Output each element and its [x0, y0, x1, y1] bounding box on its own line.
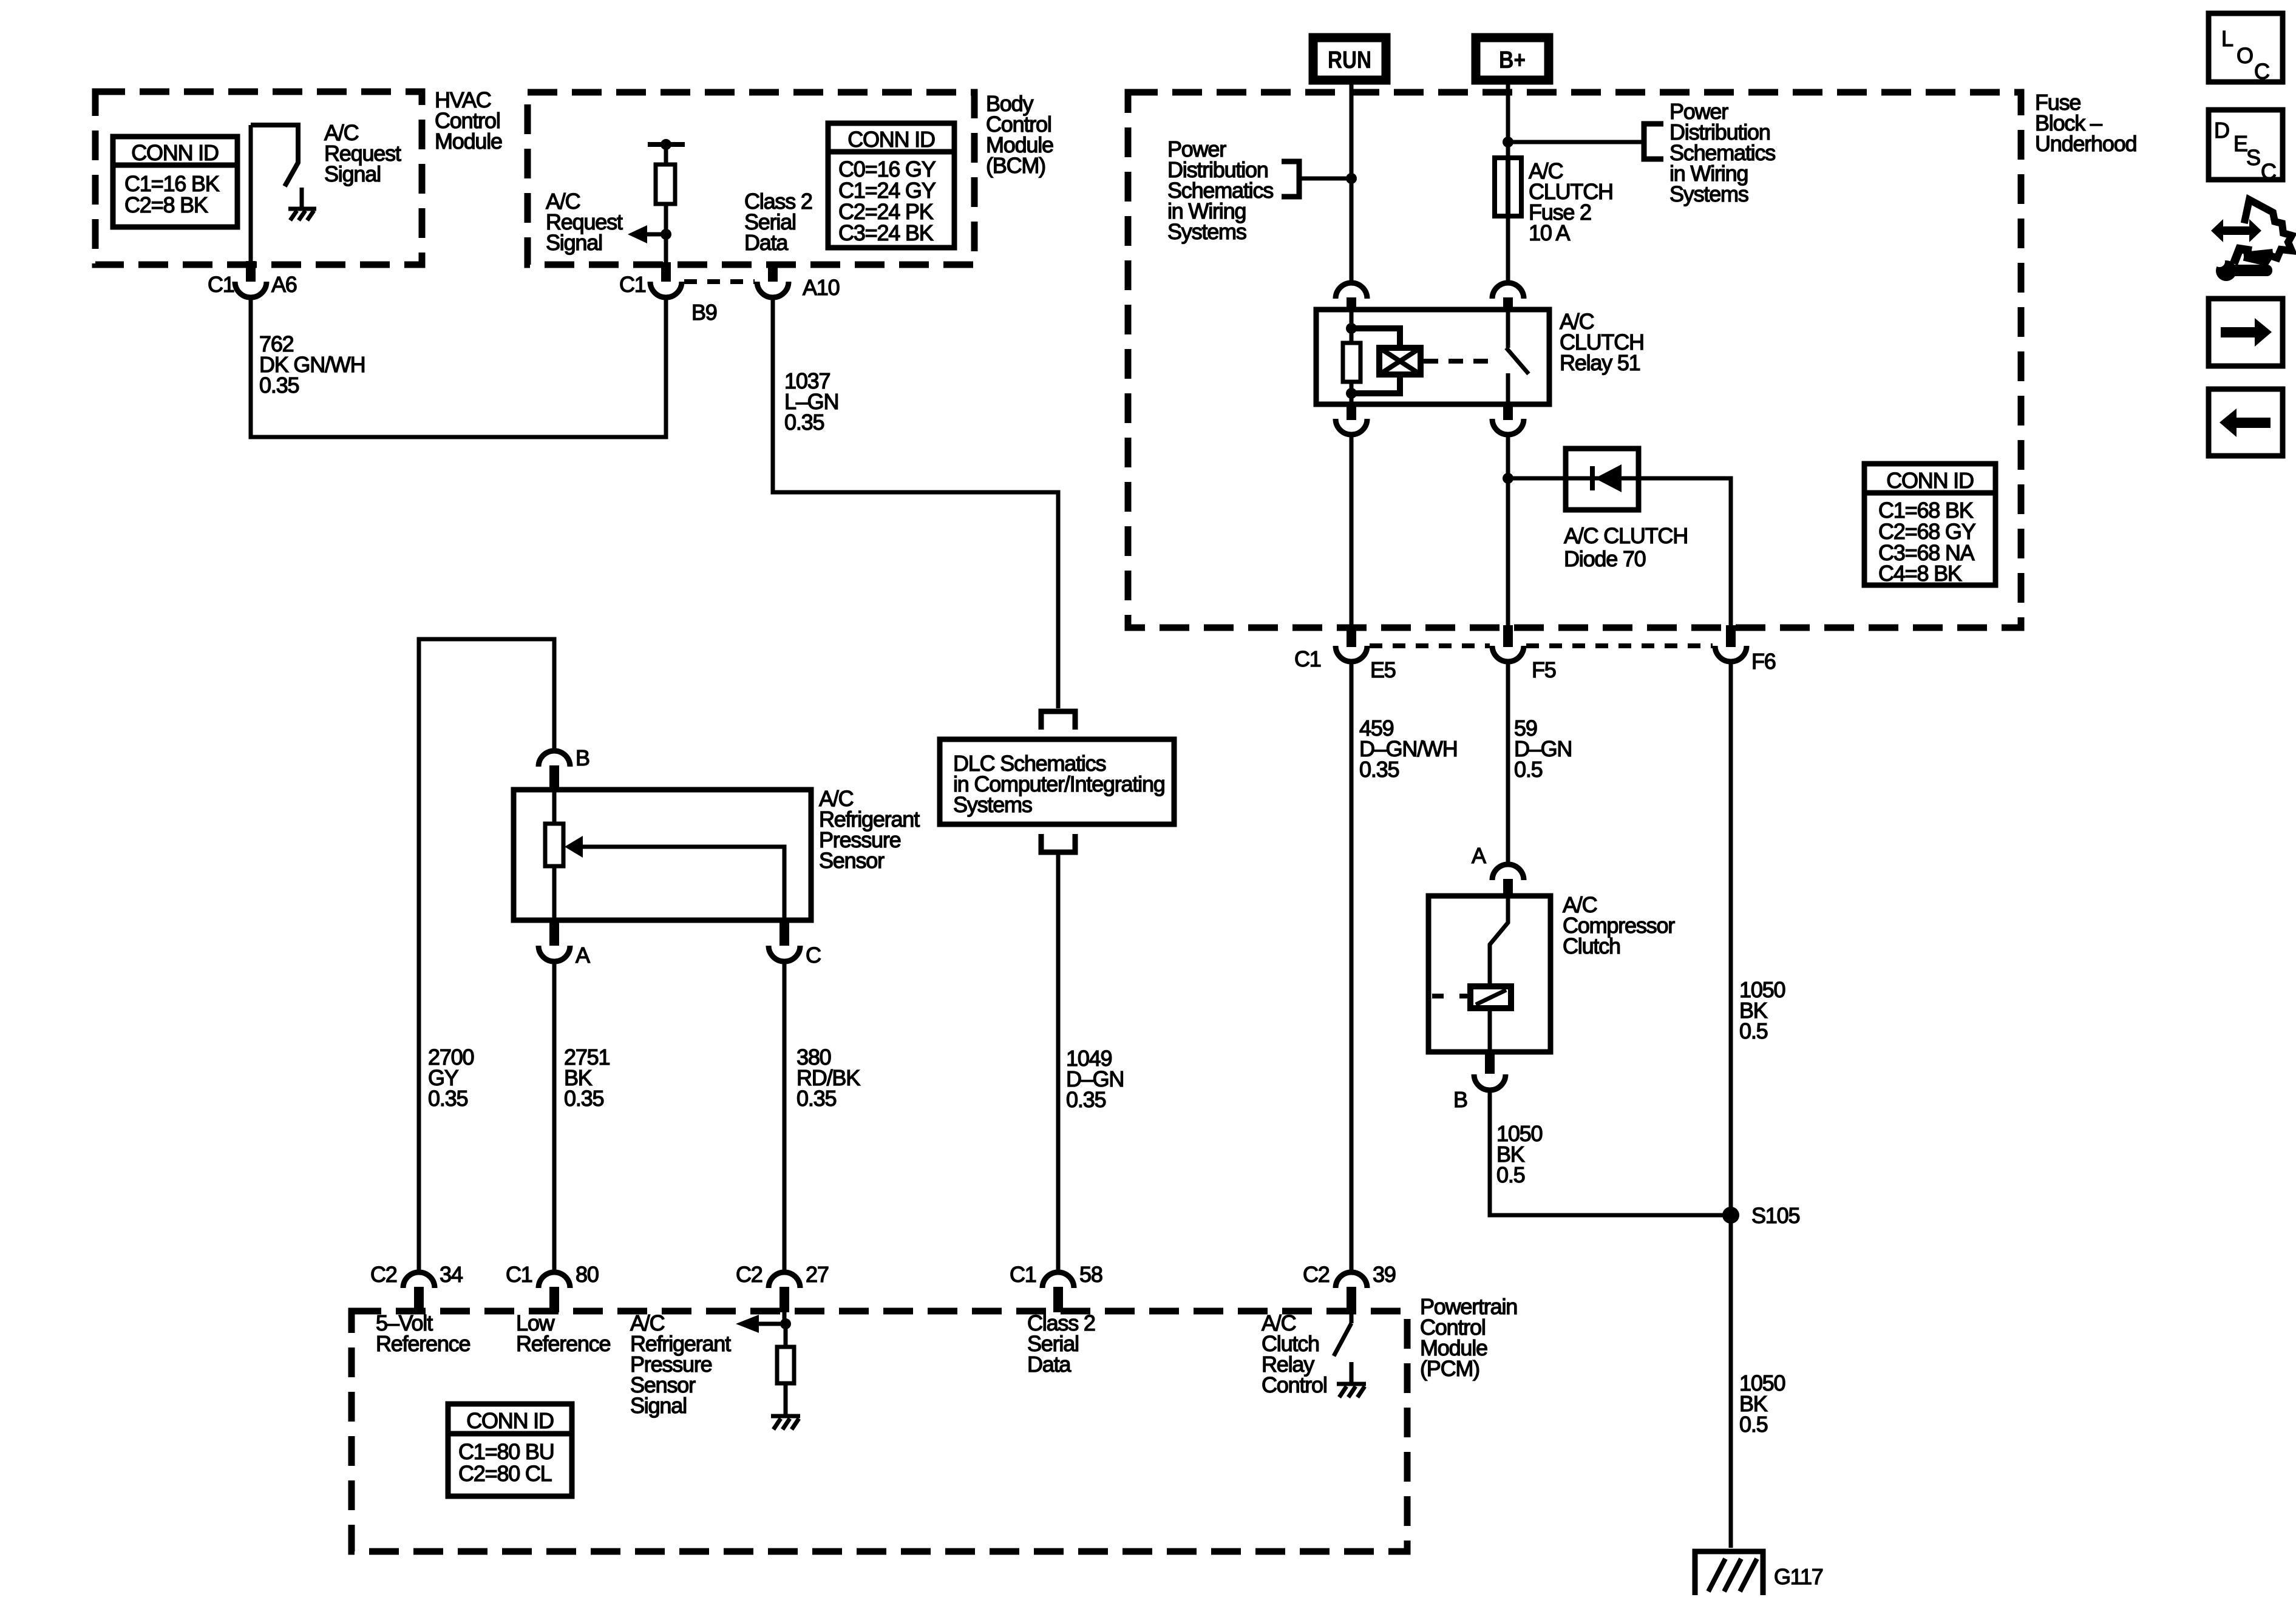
pin stub sensor A [549, 920, 559, 946]
svg-text:34: 34 [440, 1262, 463, 1287]
label wire 2751 BK 0.35 [564, 1045, 610, 1111]
relay coil box-X symbol [1379, 348, 1421, 375]
label wire 1049 D-GN 0.35 [1066, 1046, 1124, 1112]
label Fuse Block - Underhood [2035, 90, 2136, 156]
wire 762 DK GN/WH (A6 to B9) [251, 297, 666, 437]
svg-text:C2=8 BK: C2=8 BK [124, 192, 208, 217]
ground G117 [1695, 1551, 1823, 1595]
pin stub sensor B [549, 765, 559, 791]
pin stub E5 [1347, 625, 1356, 647]
svg-text:C2: C2 [736, 1262, 763, 1287]
power feed box RUN [1313, 38, 1386, 80]
svg-text:C1: C1 [1010, 1262, 1036, 1287]
svg-text:Systems: Systems [953, 792, 1032, 817]
wire branch to power distribution reference (right) [1508, 140, 1644, 144]
svg-text:Diode 70: Diode 70 [1564, 546, 1646, 571]
pin stub F6 [1726, 625, 1736, 647]
svg-text:C: C [2254, 59, 2269, 84]
off-page bracket (right power distribution) [1644, 124, 1663, 159]
off-page bracket (DLC bottom) [1041, 834, 1075, 852]
wire 5-volt reference (sensor B to PCM 34) [419, 639, 554, 1271]
svg-text:(PCM): (PCM) [1420, 1356, 1479, 1381]
arrow A/C Request Signal (BCM) [628, 225, 666, 243]
label wire 380 RD/BK 0.35 [796, 1045, 860, 1111]
resistor (relay coil suppression) [1343, 343, 1360, 382]
pin stub compressor A [1503, 879, 1513, 897]
pin stub PCM 27 [779, 1287, 789, 1312]
label A/C Request Signal (HVAC) [324, 120, 401, 186]
wire 59 D-GN (F5 to compressor A) [1506, 662, 1510, 866]
svg-text:C4=8 BK: C4=8 BK [1878, 561, 1962, 586]
label Class 2 Serial Data (PCM) [1027, 1310, 1095, 1377]
DLC Schematics reference box [940, 739, 1174, 824]
svg-text:0.5: 0.5 [1739, 1019, 1768, 1043]
svg-text:80: 80 [576, 1262, 599, 1287]
connector F5 [1492, 646, 1556, 682]
svg-text:CONN ID: CONN ID [131, 140, 219, 165]
connector C1 E5 [1294, 646, 1396, 682]
svg-text:Data: Data [1027, 1352, 1072, 1377]
svg-text:CONN ID: CONN ID [466, 1408, 554, 1433]
power feed box B+ [1476, 38, 1549, 80]
label A/C Request Signal (BCM) [546, 189, 623, 255]
svg-text:Systems: Systems [1167, 219, 1246, 244]
svg-text:0.5: 0.5 [1739, 1412, 1768, 1437]
pin stub PCM 39 [1347, 1287, 1356, 1312]
connector sensor pin C [769, 943, 821, 968]
node dot relay coil bottom [1346, 388, 1357, 399]
connector C1 80 [506, 1262, 599, 1288]
pin stub B9 [661, 262, 671, 282]
wire branch to power distribution reference (left) [1299, 177, 1351, 181]
connector C2 27 [736, 1262, 829, 1288]
svg-text:B+: B+ [1499, 47, 1526, 73]
svg-text:A/C CLUTCH: A/C CLUTCH [1564, 523, 1688, 548]
svg-text:0.35: 0.35 [564, 1086, 603, 1111]
connector arc compressor pin A [1472, 843, 1524, 880]
wiper arrow (pressure sensor) [565, 836, 784, 920]
connector C1 B9 [619, 272, 717, 325]
wire 1050 BK (compressor B to S105) [1490, 1090, 1731, 1215]
label Power Distribution Schematics in Wiring Systems (right) [1669, 99, 1775, 206]
svg-text:F6: F6 [1751, 649, 1776, 674]
Fuse Block - Underhood box [1128, 92, 2021, 628]
pin stub A6 [246, 261, 256, 282]
wire 2751 BK (sensor A to PCM 80) [552, 961, 557, 1271]
wire 1050 BK (F6 to G117) [1729, 662, 1733, 1548]
svg-text:C1: C1 [619, 272, 646, 297]
pin stub A10 [768, 262, 778, 282]
svg-text:Systems: Systems [1669, 181, 1748, 206]
label wire 1050 BK 0.5 (compressor B) [1496, 1121, 1542, 1187]
label A/C CLUTCH Relay 51 [1560, 309, 1644, 375]
label A/C CLUTCH Fuse 2 10 A [1529, 158, 1613, 245]
svg-text:Signal: Signal [324, 161, 381, 186]
svg-text:Sensor: Sensor [819, 848, 885, 873]
ground (HVAC switch) [288, 188, 316, 220]
label HVAC Control Module [435, 87, 502, 154]
resistor (PCM input pull) [777, 1324, 794, 1414]
svg-text:C: C [2261, 159, 2276, 184]
svg-text:0.35: 0.35 [259, 373, 299, 398]
node junction dot (BCM) [661, 229, 671, 240]
resistor (BCM A/C request pull-up) [656, 144, 675, 265]
connector row dotted line (underhood C1 right) [1526, 643, 1713, 648]
connector F6 [1715, 646, 1776, 674]
wire RUN feed [1350, 84, 1354, 280]
svg-text:C1=80 BU: C1=80 BU [458, 1439, 554, 1464]
connector compressor pin B [1453, 1074, 1506, 1112]
label Body Control Module (BCM) [986, 91, 1053, 178]
svg-text:Module: Module [435, 129, 502, 154]
connector row dotted line (BCM C1) [684, 279, 755, 284]
switch relay control driver (PCM internal) [1334, 1311, 1351, 1356]
connector A10 [757, 275, 840, 300]
svg-text:0.35: 0.35 [784, 410, 824, 435]
splice node S105 [1722, 1203, 1799, 1228]
svg-text:RUN: RUN [1328, 47, 1371, 73]
connector arc (relay pin 1 top) [1336, 283, 1367, 311]
svg-text:C2: C2 [370, 1262, 397, 1287]
svg-text:0.5: 0.5 [1514, 757, 1543, 782]
wire 1037 L-GN (A10 to DLC) [773, 297, 1058, 708]
svg-text:B: B [1453, 1087, 1467, 1112]
pin stub compressor B [1485, 1052, 1495, 1074]
CONN ID table (HVAC) [113, 137, 237, 227]
switch contact (compressor clutch) [1490, 896, 1508, 986]
svg-text:S105: S105 [1751, 1203, 1799, 1228]
label wire 2700 GY 0.35 [428, 1045, 474, 1111]
pin stub PCM 34 [414, 1287, 424, 1312]
pin stub sensor C [779, 920, 789, 946]
A/C Compressor Clutch box [1428, 896, 1550, 1052]
fuse A/C CLUTCH Fuse 2 10A [1495, 158, 1521, 216]
svg-text:0.35: 0.35 [1359, 757, 1399, 782]
ground (PCM internal, driver) [1337, 1362, 1366, 1397]
pin stub PCM 58 [1053, 1287, 1063, 1312]
label A/C Refrigerant Pressure Sensor [819, 786, 920, 873]
svg-text:58: 58 [1079, 1262, 1102, 1287]
svg-text:39: 39 [1373, 1262, 1396, 1287]
svg-text:0.35: 0.35 [796, 1086, 836, 1111]
label wire 762 DK GN/WH 0.35 [259, 331, 365, 398]
off-page bracket (DLC top) [1041, 711, 1075, 730]
label A/C CLUTCH Diode 70 [1564, 523, 1688, 571]
solenoid coil (compressor clutch) [1432, 986, 1511, 1052]
DESC button box [2209, 110, 2283, 184]
node junction dot (diode tap) [1503, 473, 1513, 484]
svg-text:(BCM): (BCM) [986, 153, 1045, 178]
CONN ID table (PCM) [448, 1404, 572, 1496]
wire 380 RD/BK (sensor C to PCM 27) [783, 961, 787, 1271]
svg-text:G117: G117 [1774, 1564, 1823, 1589]
svg-text:C1: C1 [208, 272, 234, 297]
svg-text:A6: A6 [271, 272, 297, 297]
pin stub relay bottom right [1503, 404, 1513, 420]
node junction dot (B+ branch) [1503, 137, 1513, 147]
connector C1 58 [1010, 1262, 1102, 1288]
label 5-Volt Reference [376, 1310, 470, 1356]
svg-text:F5: F5 [1532, 657, 1556, 682]
svg-text:C2: C2 [1303, 1262, 1330, 1287]
svg-text:27: 27 [806, 1262, 829, 1287]
svg-text:CONN ID: CONN ID [1886, 468, 1974, 493]
label wire 1037 L-GN 0.35 [784, 368, 838, 435]
relay actuation dashed link [1424, 359, 1495, 364]
connector arc sensor pin B [538, 745, 589, 770]
connector arc (relay pin E5 side) [1336, 419, 1367, 435]
svg-text:Underhood: Underhood [2035, 131, 2136, 156]
svg-text:0.35: 0.35 [428, 1086, 467, 1111]
off-page bracket (left power distribution) [1282, 161, 1299, 197]
svg-text:A: A [1472, 843, 1486, 868]
label wire 459 D-GN/WH 0.35 [1359, 716, 1458, 782]
svg-text:C3=24 BK: C3=24 BK [838, 220, 934, 245]
label wire 1050 BK 0.5 (lower) [1739, 1371, 1785, 1437]
node junction dot (RUN branch) [1346, 173, 1357, 184]
svg-text:0.35: 0.35 [1066, 1087, 1106, 1112]
svg-text:C1: C1 [506, 1262, 532, 1287]
svg-text:Reference: Reference [376, 1331, 470, 1356]
wire 1049 D-GN (DLC to PCM 58) [1056, 852, 1061, 1271]
connector C2 34 [370, 1262, 463, 1288]
svg-text:10 A: 10 A [1529, 220, 1570, 245]
relay switch contact [1506, 310, 1529, 404]
connector C2 39 [1303, 1262, 1396, 1288]
terminator bar (BCM pull-up top) [648, 139, 685, 150]
svg-text:Reference: Reference [516, 1331, 610, 1356]
wire HVAC switch to pin A6 [249, 125, 253, 263]
svg-text:CONN ID: CONN ID [847, 127, 935, 152]
svg-text:O: O [2237, 43, 2253, 68]
svg-text:Signal: Signal [630, 1393, 687, 1418]
pin stub F5 [1503, 625, 1513, 647]
svg-text:B9: B9 [691, 300, 717, 325]
potentiometer resistor (pressure sensor) [545, 790, 563, 920]
pin stub relay bottom left [1347, 404, 1356, 420]
diode A/C CLUTCH Diode 70 [1566, 449, 1639, 510]
svg-text:Relay 51: Relay 51 [1560, 350, 1640, 375]
connector row dotted line (underhood C1) [1370, 643, 1490, 648]
svg-text:0.5: 0.5 [1496, 1162, 1525, 1187]
pin stub PCM 80 [549, 1287, 559, 1312]
svg-text:Signal: Signal [546, 230, 602, 255]
svg-text:D: D [2214, 118, 2229, 143]
LOC button box [2209, 13, 2283, 84]
wire B+ feed [1506, 84, 1510, 280]
ground (PCM internal, sensor) [771, 1416, 800, 1429]
connector C1 A6 [208, 272, 297, 297]
label Low Reference [516, 1310, 610, 1356]
wire 459 D-GN/WH (E5 to PCM 39) [1350, 662, 1354, 1271]
switch A/C Request Signal (HVAC) [251, 125, 298, 186]
wire diode to F6 [1639, 478, 1731, 626]
HVAC Control Module box [95, 92, 422, 265]
svg-text:C: C [806, 943, 821, 968]
svg-text:C1: C1 [1294, 646, 1321, 671]
label wire 59 D-GN 0.5 [1514, 716, 1572, 782]
label Powertrain Control Module (PCM) [1420, 1294, 1517, 1381]
arrow pressure sensor signal (PCM internal) [736, 1311, 791, 1333]
A/C Refrigerant Pressure Sensor box [514, 790, 811, 920]
svg-text:C2=80 CL: C2=80 CL [458, 1461, 552, 1486]
label wire 1050 BK 0.5 (upper) [1739, 977, 1785, 1043]
CONN ID table (Fuse Block) [1864, 464, 1995, 586]
next page arrow button [2209, 299, 2283, 366]
svg-text:Clutch: Clutch [1563, 934, 1620, 958]
connector arc (relay pin 2 top) [1492, 283, 1524, 311]
wire to diode [1508, 476, 1566, 481]
svg-text:A: A [576, 943, 590, 968]
svg-text:Data: Data [744, 230, 789, 255]
icon double arrow / hand / wrench [2211, 200, 2292, 281]
svg-text:A10: A10 [803, 275, 840, 300]
label A/C Refrigerant Pressure Sensor Signal [630, 1310, 731, 1418]
connector sensor pin A [538, 943, 590, 968]
label A/C Clutch Relay Control [1262, 1310, 1327, 1397]
label Power Distribution Schematics in Wiring Systems (left) [1167, 137, 1273, 244]
Powertrain Control Module (PCM) box [352, 1311, 1407, 1551]
wire relay switch to F5 [1506, 435, 1510, 626]
svg-text:Control: Control [1262, 1372, 1327, 1397]
CONN ID table (BCM) [828, 123, 954, 248]
label Class 2 Serial Data (BCM) [744, 189, 812, 255]
svg-text:S: S [2246, 145, 2260, 170]
svg-text:L: L [2221, 26, 2233, 51]
label A/C Compressor Clutch [1563, 892, 1675, 958]
svg-text:E: E [2233, 131, 2247, 156]
svg-text:B: B [576, 745, 589, 770]
wire relay coil to E5 [1350, 435, 1354, 626]
svg-text:E5: E5 [1370, 657, 1396, 682]
relay A/C CLUTCH Relay 51 box [1316, 310, 1549, 404]
previous page arrow button [2209, 389, 2283, 456]
Body Control Module (BCM) box [528, 92, 974, 265]
relay coil branch wires [1351, 310, 1400, 404]
connector arc (relay pin F5 side) [1492, 419, 1524, 435]
node dot relay coil top [1346, 323, 1357, 334]
